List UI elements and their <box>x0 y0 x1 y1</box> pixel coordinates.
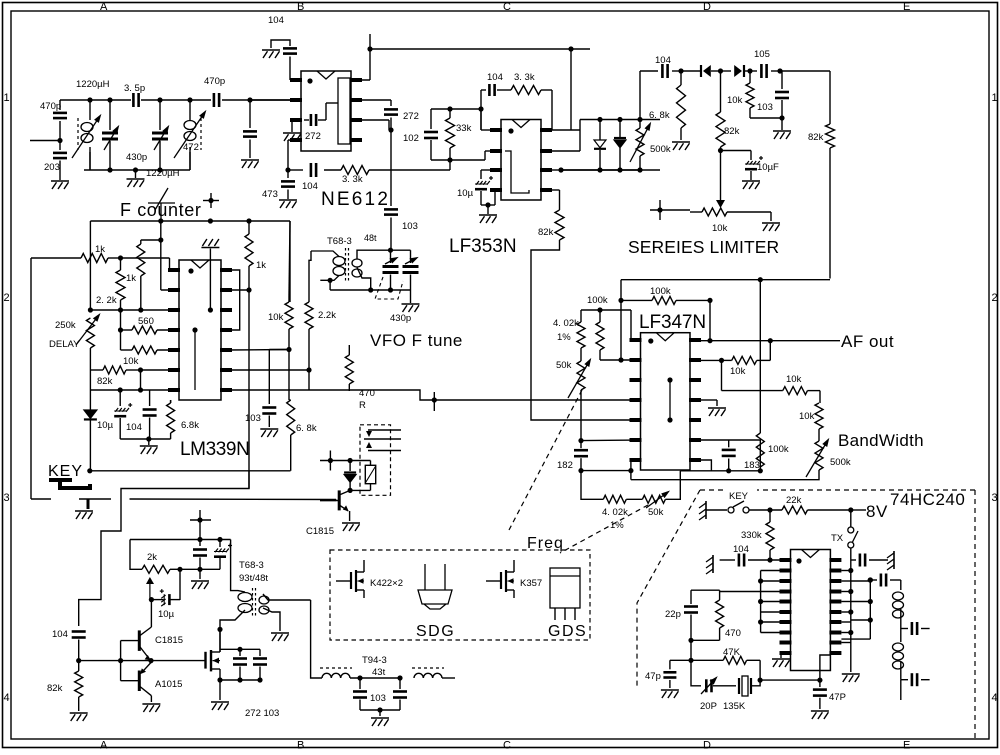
node dot pin5 right <box>286 347 291 352</box>
svg-text:82k: 82k <box>724 126 740 137</box>
node dot 272-102 <box>388 127 393 132</box>
dashed boundary top <box>700 489 975 491</box>
svg-text:2: 2 <box>992 292 998 304</box>
capacitor 104 240 <box>720 559 735 561</box>
ground 104 amp <box>199 569 201 579</box>
node dot 33k bottom <box>447 157 452 162</box>
node dot rail LF353 <box>568 46 573 51</box>
node dots amp mid <box>177 567 182 572</box>
capacitor 104 feedback <box>310 163 313 177</box>
svg-text:2. 2k: 2. 2k <box>96 295 117 306</box>
wire base from key line <box>335 500 337 501</box>
capacitor 47P out <box>819 680 821 687</box>
junction cross mid <box>433 392 435 411</box>
op-amp LF347N IC box <box>641 333 691 470</box>
svg-text:250k: 250k <box>55 320 76 331</box>
svg-text:4. 02k: 4. 02k <box>602 507 628 518</box>
wire top rail y100 <box>60 99 131 101</box>
node dot pin2 right <box>246 287 251 292</box>
transistor C1815 amp <box>138 630 141 651</box>
svg-text:103: 103 <box>402 221 418 232</box>
inductor output 1 <box>893 592 904 600</box>
svg-text:470: 470 <box>725 628 741 639</box>
wire down to 47k node <box>690 640 692 660</box>
resistor 10k af <box>701 359 722 361</box>
wire out end <box>900 680 902 700</box>
node dot 6.8k top <box>678 68 683 73</box>
svg-text:4: 4 <box>992 692 998 704</box>
wire bases vertical <box>120 641 122 681</box>
ground 6.8k limiter <box>672 141 690 143</box>
potentiometer 500k bw <box>818 429 820 441</box>
comparator LM339N IC box <box>179 260 221 400</box>
wire 50k down to 182 <box>580 390 582 441</box>
wire pin5 row right <box>228 349 289 352</box>
transformer T68-3 output <box>252 588 254 618</box>
svg-text:6. 8k: 6. 8k <box>296 423 317 434</box>
ground lm339 bus <box>148 439 150 445</box>
wire vfo top to trimmer2 <box>391 249 411 251</box>
node dot 330k bottom <box>767 557 772 562</box>
svg-text:430p: 430p <box>390 313 411 324</box>
resistor 100k vert <box>599 310 601 322</box>
svg-text:82k: 82k <box>97 376 113 387</box>
wire filter out <box>442 677 455 679</box>
resistor 82k to LF347 <box>555 210 564 240</box>
supply cross amp <box>199 510 201 540</box>
capacitor 104 keyline <box>72 630 86 633</box>
wire pin6R 183 <box>701 440 760 471</box>
svg-text:1k: 1k <box>126 273 136 284</box>
inductor output 2 <box>893 643 904 651</box>
svg-text:48t: 48t <box>364 233 377 243</box>
node dots on rail <box>87 97 92 102</box>
node dot vfo top <box>388 248 393 253</box>
variable capacitor 430p a <box>109 100 111 130</box>
LM339N internal ground line <box>209 249 211 311</box>
node dot drain <box>217 627 222 632</box>
wire left edge down <box>89 370 91 390</box>
capacitor 22p <box>690 590 692 604</box>
svg-text:50k: 50k <box>648 507 664 518</box>
capacitor 3.5p <box>132 93 135 107</box>
ground lf347 pin4 <box>708 407 726 409</box>
svg-text:C: C <box>503 1 511 13</box>
resistor 47K <box>723 656 746 664</box>
svg-text:1%: 1% <box>610 520 624 531</box>
svg-text:1: 1 <box>4 92 10 104</box>
svg-text:2.2k: 2.2k <box>318 310 336 321</box>
wire lm339 out mid band <box>309 390 641 400</box>
ground NE612 pin3 <box>283 132 301 134</box>
resistor 33k <box>449 109 451 118</box>
node dot 473 <box>285 167 290 172</box>
svg-text:10k: 10k <box>786 374 802 385</box>
svg-text:10k: 10k <box>730 366 746 377</box>
resistor 4.02k a <box>580 310 582 322</box>
wire LF353 pin1 to feedback <box>481 129 490 131</box>
wire diode clipper top <box>600 119 660 121</box>
wire rail drop x621 <box>620 280 622 360</box>
wire top output cap <box>851 559 856 561</box>
capacitor 47p left <box>669 660 671 669</box>
wire 391 down to 103 <box>390 130 392 206</box>
wire 500k to pin7 row <box>631 470 819 480</box>
capacitor 104 amp <box>199 540 201 547</box>
resistor 6.8k right <box>288 350 290 401</box>
resistor 6.8k lm339 <box>170 400 172 403</box>
svg-text:104: 104 <box>52 629 68 640</box>
wire 4.02k b chain <box>581 471 603 500</box>
chassis 104 240 <box>712 555 714 573</box>
ground for 104 decoupling <box>262 49 280 51</box>
transformer T68-3 vfo <box>345 248 347 282</box>
node dot 2.2k pin6 <box>306 367 311 372</box>
supply rail stub <box>369 34 371 49</box>
ground 103 right <box>260 428 278 430</box>
svg-text:6. 8k: 6. 8k <box>649 110 670 121</box>
svg-text:VFO F tune: VFO F tune <box>370 331 463 350</box>
svg-text:KEY: KEY <box>48 463 83 480</box>
wire pin1 af out <box>701 340 840 342</box>
svg-text:104: 104 <box>126 422 142 433</box>
resistor 10k bw <box>721 360 723 390</box>
ground under 203 <box>51 180 69 182</box>
key lever symbol <box>49 478 72 482</box>
inductor T94 a <box>322 673 331 678</box>
svg-text:2: 2 <box>4 292 10 304</box>
node dot 103 bottom <box>779 115 784 120</box>
wire pin7 stub <box>630 460 632 471</box>
inductor 1220uH variable left <box>89 100 91 120</box>
svg-text:10k: 10k <box>712 223 728 234</box>
wire 8v <box>851 509 866 511</box>
svg-text:SDG: SDG <box>416 623 455 640</box>
capacitor 103 limiter <box>781 71 783 89</box>
ground 82k keyline <box>70 712 88 714</box>
svg-text:272: 272 <box>403 111 419 122</box>
resistor 100k fb a <box>621 299 652 301</box>
svg-text:135K: 135K <box>723 701 746 712</box>
svg-text:10µF: 10µF <box>757 162 779 173</box>
capacitor out bottom <box>901 679 908 681</box>
svg-text:203: 203 <box>44 162 60 173</box>
dashed boundary diagonal <box>637 490 700 688</box>
wire 100k right to afout <box>709 300 711 340</box>
node dot 105 right <box>777 68 782 73</box>
svg-text:D: D <box>703 740 711 751</box>
SDG package outline <box>424 564 426 590</box>
svg-text:C1815: C1815 <box>155 635 183 646</box>
node dot filter b <box>397 675 402 680</box>
electrolytic 10u lm339 <box>119 390 121 406</box>
svg-text:10k: 10k <box>799 411 815 422</box>
wire drain caps top <box>220 648 260 650</box>
ground 103 limiter <box>781 118 783 130</box>
wire LF353 pin4 gnd <box>490 189 495 191</box>
svg-text:105: 105 <box>754 49 770 60</box>
wire 22p top <box>691 589 720 591</box>
svg-text:3. 3k: 3. 3k <box>342 174 363 185</box>
ground 473 <box>279 199 297 201</box>
node dots clipper bottom <box>597 167 602 172</box>
wire top rail row2 <box>621 279 830 281</box>
wire delay to 82k <box>89 348 91 370</box>
GDS package outline <box>550 568 580 608</box>
wire trimmer branch <box>691 660 701 686</box>
svg-text:A1015: A1015 <box>155 679 182 690</box>
diode relay <box>349 461 351 472</box>
wire left rail x31 <box>30 258 32 499</box>
wire NE612 pin6 to 272 <box>351 99 391 101</box>
transistor C1815 relay <box>338 490 341 510</box>
svg-text:T94-3: T94-3 <box>362 655 387 666</box>
svg-text:100k: 100k <box>650 286 671 297</box>
electrolytic 10u lf353 <box>480 170 482 179</box>
relay contacts <box>368 429 401 431</box>
wire pin10 gnd <box>780 653 782 658</box>
ground t68 secondary <box>271 632 289 634</box>
ground source <box>219 680 221 700</box>
svg-text:104: 104 <box>655 55 671 66</box>
wire y310 <box>581 309 631 311</box>
wire rail corner to 10k <box>289 221 291 302</box>
svg-text:104: 104 <box>487 72 503 83</box>
svg-text:470p: 470p <box>40 101 61 112</box>
svg-text:3: 3 <box>992 492 998 504</box>
wire NE612 pin5 join <box>351 119 389 121</box>
right bus a <box>850 560 852 672</box>
wire osc to pin11 <box>760 655 830 680</box>
svg-text:102: 102 <box>403 133 419 144</box>
capacitor 103 f1 <box>359 678 361 689</box>
node dot d1 <box>718 68 723 73</box>
svg-text:93t/48t: 93t/48t <box>239 573 268 584</box>
divider mark <box>155 188 168 210</box>
wire 82k to pin6 <box>141 369 180 371</box>
capacitor 470p input top <box>59 100 61 110</box>
capacitor 473 <box>287 170 289 178</box>
svg-text:2k: 2k <box>147 552 157 563</box>
resistor 82k lm339 <box>90 369 103 371</box>
wire supply to LF353 pin8 <box>570 49 572 130</box>
buffer 74HC240 IC box <box>791 550 831 671</box>
wire 33k bottom to LF353 pin2 <box>431 159 485 161</box>
crystal 135K <box>738 678 740 694</box>
wire limiter out right <box>780 70 830 72</box>
ground pin10 <box>772 658 790 660</box>
wire pin3 row <box>90 309 179 311</box>
wire 100k vert to pin2 <box>600 359 641 361</box>
electrolytic 10uF limiter <box>721 150 752 152</box>
wire crystal right <box>751 660 760 686</box>
LF347N internal line <box>669 380 671 420</box>
electrolytic 10u amp <box>179 569 181 600</box>
svg-text:20P: 20P <box>700 701 717 712</box>
resistor 1k a <box>31 257 81 259</box>
chassis output top <box>893 551 895 569</box>
wire 104 to ic pin1 <box>770 559 791 561</box>
svg-text:500k: 500k <box>830 457 851 468</box>
wire pin7R loop <box>680 460 711 471</box>
wire LF353 pin5 to 82k <box>552 189 560 191</box>
wire feedback y170 <box>288 169 303 171</box>
svg-text:43t: 43t <box>372 667 386 678</box>
inductor 1220uH variable right <box>189 100 191 120</box>
svg-text:10µ: 10µ <box>457 188 474 199</box>
svg-text:103: 103 <box>245 413 261 424</box>
wire 103 68k tops <box>269 349 289 351</box>
svg-text:22p: 22p <box>665 609 681 620</box>
svg-text:500k: 500k <box>650 144 671 155</box>
svg-text:10k: 10k <box>727 95 743 106</box>
capacitor 103 right <box>268 350 270 405</box>
junction cross above lm339 <box>210 193 212 208</box>
svg-text:22k: 22k <box>786 495 802 506</box>
wire f counter top rail <box>90 220 290 222</box>
dashed leader A2 <box>560 505 648 553</box>
wire pin6 row <box>581 439 641 442</box>
potentiometer 50k a <box>580 348 582 361</box>
chassis key 240 <box>705 501 707 519</box>
label KEY 240 <box>727 487 757 500</box>
svg-text:BandWidth: BandWidth <box>838 431 924 450</box>
wire rail to pin2 <box>160 221 162 240</box>
node dots tank bottom <box>107 167 112 172</box>
svg-text:8V: 8V <box>866 502 888 521</box>
svg-text:100k: 100k <box>587 295 608 306</box>
resistor 82k right <box>829 71 831 124</box>
resistor 22k <box>782 506 808 514</box>
trimmer 20P <box>705 679 708 692</box>
svg-text:6.8k: 6.8k <box>181 420 199 431</box>
node dots base bus <box>118 658 123 663</box>
wire relay node row <box>320 460 350 462</box>
svg-text:430p: 430p <box>126 152 147 163</box>
svg-text:R: R <box>359 400 366 411</box>
relay coil <box>365 465 375 483</box>
diode series 2 <box>721 70 732 72</box>
ground 47P <box>811 710 829 712</box>
svg-text:LF347N: LF347N <box>639 312 706 333</box>
wire to pin1 lm339 <box>121 257 170 259</box>
capacitor 272 output <box>384 108 398 111</box>
wire relay drive <box>290 470 292 472</box>
wire 33k top to LF353 feedback node <box>450 108 481 110</box>
NE612 internal capacitor 272 <box>304 119 309 121</box>
capacitor 103 f2 <box>399 678 401 689</box>
wire to coil1 <box>900 580 902 590</box>
LF353N internal lines <box>505 151 529 193</box>
resistor 3.3k lf353 <box>497 89 511 91</box>
ground 47p <box>661 689 679 691</box>
potentiometer 500k limiter <box>639 120 641 129</box>
svg-text:330k: 330k <box>741 530 762 541</box>
wire key row471 <box>90 470 291 472</box>
wire clipper up to 104 <box>639 71 641 120</box>
wire NE612 pin8 to supply rail <box>351 79 370 81</box>
svg-text:104: 104 <box>268 15 284 26</box>
svg-text:33k: 33k <box>456 123 472 134</box>
wire t68 left to 2.2k <box>309 251 311 296</box>
dashed boundary right <box>974 490 976 740</box>
svg-text:3. 3k: 3. 3k <box>514 72 535 83</box>
capacitor 102 <box>430 109 432 129</box>
wire input left <box>30 140 60 142</box>
svg-text:TX: TX <box>831 533 844 544</box>
diode clipper 2 <box>619 120 621 139</box>
wire filter gnd bus <box>360 709 400 711</box>
resistor 470 240 <box>716 600 724 628</box>
ground 10k pot <box>762 222 780 224</box>
svg-text:A: A <box>100 1 108 13</box>
op-amp NE612 IC box <box>301 71 351 151</box>
wire 47k row <box>670 659 723 661</box>
svg-text:47p: 47p <box>645 671 661 682</box>
diode series 1 <box>681 70 701 72</box>
capacitor 104 decoupling NE612 <box>271 40 290 48</box>
capacitor output coupling <box>868 577 873 582</box>
capacitor 182 <box>578 438 583 443</box>
svg-text:C: C <box>503 740 511 751</box>
ground 10uF <box>742 180 760 182</box>
resistor 1k c <box>248 221 250 234</box>
capacitor 103 vfo <box>384 208 398 211</box>
mosfet K357 symbol <box>500 572 502 589</box>
Freq dashed box <box>330 550 590 640</box>
svg-text:T68-3: T68-3 <box>239 560 264 571</box>
TX switch <box>850 510 852 527</box>
ground under 472 <box>241 159 259 161</box>
wire pin7 row long <box>228 389 309 391</box>
wire left box edge <box>89 221 91 310</box>
wire y310 to pin1 <box>630 310 632 340</box>
node dots pin3 row <box>88 307 93 312</box>
ground 430p <box>402 303 420 305</box>
wire key to 22k <box>749 509 782 511</box>
capacitor 104 lm339 <box>149 390 151 406</box>
svg-text:LM339N: LM339N <box>180 439 249 460</box>
mosfet K422x2 symbol <box>350 572 352 589</box>
wire LF353 pin7 <box>552 150 580 152</box>
key contact wire <box>31 498 51 500</box>
svg-text:272: 272 <box>305 131 321 142</box>
diode clipper 1 <box>599 120 601 141</box>
svg-text:74HC240: 74HC240 <box>890 490 965 509</box>
transistor A1015 amp <box>138 671 141 692</box>
svg-text:T68-3: T68-3 <box>327 236 352 247</box>
svg-text:103: 103 <box>757 102 773 113</box>
svg-text:47P: 47P <box>829 692 846 703</box>
node dots 47k row <box>688 658 693 663</box>
svg-text:182: 182 <box>557 460 573 471</box>
ground c1815 relay <box>342 522 360 524</box>
resistor 1k b <box>116 270 125 300</box>
electrolytic amp top <box>219 540 221 548</box>
wire 22p 470 bottoms <box>691 639 720 641</box>
wire LF353 pin8 out right <box>552 129 580 131</box>
key ground stub <box>87 499 90 509</box>
svg-text:1: 1 <box>992 92 998 104</box>
capacitor 472 <box>249 100 251 128</box>
svg-text:103: 103 <box>370 693 386 704</box>
wire LF353 pin6 bottom <box>552 169 561 171</box>
resistor 330k <box>769 510 771 522</box>
wire vfo bottom <box>330 289 410 291</box>
node dot 104 bottom <box>76 658 81 663</box>
ground right bus <box>842 673 860 675</box>
variable capacitor 430p b <box>159 100 161 130</box>
